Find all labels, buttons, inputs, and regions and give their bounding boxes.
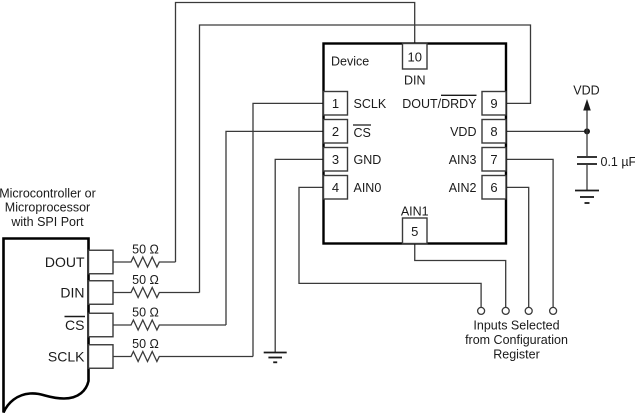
wire capacitor to ground [586, 164, 588, 190]
svg-text:DIN: DIN [404, 74, 426, 88]
svg-text:SCLK: SCLK [48, 349, 85, 365]
svg-text:GND: GND [354, 153, 382, 167]
svg-text:from Configuration: from Configuration [465, 333, 568, 347]
svg-text:3: 3 [332, 152, 339, 167]
svg-text:Microcontroller or: Microcontroller or [0, 187, 96, 201]
svg-text:50 Ω: 50 Ω [132, 243, 159, 257]
svg-text:9: 9 [490, 96, 497, 111]
svg-text:Device: Device [331, 55, 369, 69]
micro pin CS box [89, 313, 114, 337]
svg-text:DOUT/DRDY: DOUT/DRDY [402, 97, 477, 111]
wire device AIN2 pin6 to input terminal 3 [506, 187, 529, 307]
resistor 50ohm (DOUT row) [113, 257, 176, 267]
wire device AIN1 pin5 to input terminal 2 [415, 244, 506, 308]
pin 2 box [324, 120, 348, 144]
svg-text:Register: Register [493, 348, 540, 362]
wire junction up to VDD arrow [586, 108, 588, 131]
svg-text:8: 8 [490, 124, 497, 139]
svg-text:VDD: VDD [573, 84, 599, 98]
input terminal circle 1 [478, 307, 485, 314]
svg-text:1: 1 [332, 96, 339, 111]
svg-text:Inputs Selected: Inputs Selected [473, 319, 559, 333]
svg-text:CS: CS [65, 317, 84, 333]
svg-text:VDD: VDD [450, 125, 476, 139]
wire junction down to capacitor [586, 131, 588, 156]
pin 7 box [482, 148, 506, 172]
device U? box [324, 44, 507, 244]
svg-text:50 Ω: 50 Ω [132, 337, 159, 351]
wire micro DIN to device DOUT/DRDY pin9 [200, 25, 531, 293]
svg-text:SCLK: SCLK [354, 97, 387, 111]
pin 5 box [403, 218, 428, 244]
svg-text:AIN0: AIN0 [354, 181, 382, 195]
svg-text:4: 4 [332, 180, 339, 195]
svg-text:50 Ω: 50 Ω [132, 273, 159, 287]
svg-text:0.1 µF: 0.1 µF [601, 155, 635, 169]
micro pin DIN box [89, 281, 114, 305]
svg-text:50 Ω: 50 Ω [132, 306, 159, 320]
svg-text:2: 2 [332, 124, 339, 139]
svg-text:with SPI Port: with SPI Port [10, 215, 84, 229]
pin 6 box [482, 176, 506, 200]
wire device AIN3 pin7 to input terminal 4 [506, 159, 553, 307]
wire micro DOUT to device DIN pin10 [176, 3, 415, 263]
ground symbol (capacitor) [575, 191, 599, 204]
svg-text:7: 7 [490, 152, 497, 167]
wire micro SCLK to device SCLK pin1 [253, 103, 324, 356]
pin 1 box [324, 92, 348, 116]
svg-text:AIN2: AIN2 [449, 181, 477, 195]
VDD arrowhead [583, 99, 591, 111]
svg-text:CS: CS [354, 126, 371, 140]
wire device GND pin3 to ground [275, 159, 323, 352]
microcontroller U? box with torn bottom edge [4, 239, 89, 413]
svg-text:AIN1: AIN1 [401, 205, 429, 219]
micro pin SCLK box [89, 345, 114, 369]
pin 8 box [482, 120, 506, 144]
wire micro CS to device CS pin2 [226, 131, 324, 325]
input terminal circle 3 [525, 307, 532, 314]
svg-text:DOUT: DOUT [45, 254, 85, 270]
capacitor C? 0.1uF plates [577, 157, 597, 164]
pin 3 box [324, 148, 348, 172]
svg-text:5: 5 [411, 224, 418, 239]
node VDD junction dot [584, 128, 590, 134]
pin 4 box [324, 176, 348, 200]
pin 9 box [482, 92, 506, 116]
svg-text:AIN3: AIN3 [449, 153, 477, 167]
svg-text:6: 6 [490, 180, 497, 195]
svg-text:DIN: DIN [60, 285, 84, 301]
svg-text:10: 10 [408, 50, 422, 65]
ground symbol (GND pin) [264, 353, 287, 363]
wire device AIN0 pin4 to input terminal 1 [299, 187, 481, 307]
microcontroller caption [0, 187, 96, 229]
inputs caption [465, 319, 568, 362]
resistor 50ohm (CS row) [113, 320, 226, 330]
wire device VDD pin8 to supply junction [506, 130, 587, 132]
input terminal circle 2 [502, 307, 509, 314]
micro pin DOUT box [89, 250, 114, 274]
resistor 50ohm (DIN row) [113, 288, 200, 298]
resistor 50ohm (SCLK row) [113, 352, 253, 362]
pin 10 box [403, 44, 428, 70]
input terminal circle 4 [550, 307, 557, 314]
svg-text:Microprocessor: Microprocessor [5, 201, 90, 215]
